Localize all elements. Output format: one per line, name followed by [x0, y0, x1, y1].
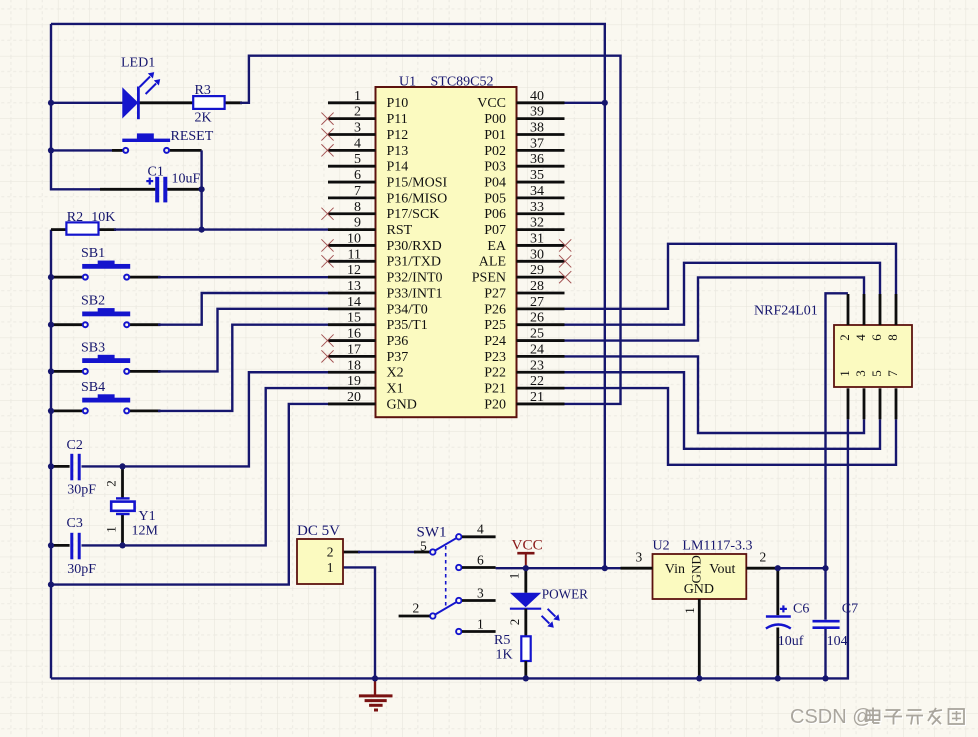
svg-text:P02: P02: [484, 144, 506, 159]
svg-text:EA: EA: [487, 239, 507, 254]
wire U1 pin20 GND to left rail: [51, 404, 328, 585]
wire R3 to P20 over the top of U1: [225, 101, 242, 104]
svg-text:11: 11: [348, 247, 361, 262]
svg-text:3: 3: [477, 586, 484, 601]
junction: [602, 100, 608, 106]
crystal Y1 12M: [111, 466, 134, 545]
svg-text:P04: P04: [484, 175, 506, 190]
svg-text:2: 2: [103, 480, 118, 487]
junction: [119, 542, 125, 548]
U2 pin 3 Vin line: [621, 567, 653, 570]
svg-text:P13: P13: [387, 144, 409, 159]
U2 pin 2 Vout line: [746, 567, 778, 570]
junction: [775, 675, 781, 681]
svg-text:Vin: Vin: [665, 562, 685, 577]
IC U1 STC89C52 body: [376, 87, 517, 417]
svg-text:15: 15: [347, 311, 361, 326]
capacitor C6 (10uf polarized): [766, 568, 791, 678]
U1 pin 27 (P26): [484, 295, 564, 317]
U1 pin 19 (X1): [328, 374, 404, 396]
junction: [48, 582, 54, 588]
wire U1 P21 to NRF pin7: [565, 388, 897, 465]
svg-text:U1: U1: [399, 75, 416, 90]
svg-text:LED1: LED1: [121, 56, 155, 71]
wire R3 jog up and over U1 to P20: [240, 56, 621, 404]
SW1 pin 6 line: [462, 566, 496, 569]
junction: [119, 463, 125, 469]
U1 pin 1 (P10): [328, 89, 408, 111]
svg-text:38: 38: [530, 121, 544, 136]
svg-text:C7: C7: [842, 602, 858, 617]
svg-text:1: 1: [354, 89, 361, 104]
svg-text:6: 6: [869, 334, 884, 341]
svg-text:P25: P25: [484, 318, 506, 333]
wire RESET right contact down through C1 to RST row: [170, 149, 202, 152]
U1 pin 4 (P13): [321, 136, 408, 158]
svg-text:30pF: 30pF: [67, 562, 96, 577]
svg-text:LM1117-3.3: LM1117-3.3: [682, 539, 752, 554]
svg-text:P17/SCK: P17/SCK: [387, 207, 440, 222]
wire SB4 to U1 pin15 P35/T1: [158, 325, 328, 411]
svg-text:2: 2: [760, 550, 767, 565]
svg-text:26: 26: [530, 311, 544, 326]
wire C1 right plate to vertical: [167, 188, 201, 191]
wire bottom ground rail: [51, 419, 848, 678]
svg-text:35: 35: [530, 168, 544, 183]
junction: [48, 274, 54, 280]
wire C3 row from rail: [51, 544, 70, 547]
wire crystal bottom node to U1 pin19 X1: [123, 388, 329, 545]
svg-text:GND: GND: [387, 397, 417, 412]
junction: [48, 463, 54, 469]
U1 pin 5 (P14): [328, 152, 408, 174]
svg-text:NRF24L01: NRF24L01: [754, 304, 818, 319]
svg-text:P12: P12: [387, 128, 409, 143]
svg-text:C1: C1: [148, 165, 164, 180]
resistor R3: [193, 96, 224, 109]
svg-text:1: 1: [837, 370, 852, 377]
svg-text:5: 5: [869, 370, 884, 377]
junction: [199, 227, 205, 233]
svg-text:X1: X1: [387, 382, 404, 397]
junction: [48, 408, 54, 414]
svg-text:10uF: 10uF: [172, 172, 201, 187]
wire SB1 left stub: [51, 276, 83, 279]
svg-text:P35/T1: P35/T1: [387, 318, 428, 333]
wire U1 P25 to NRF pin6: [565, 263, 881, 325]
svg-text:104: 104: [827, 634, 848, 649]
connector NRF24L01 body: [834, 325, 912, 387]
junction: [48, 147, 54, 153]
svg-text:10: 10: [347, 231, 361, 246]
svg-text:1K: 1K: [496, 647, 513, 662]
wire SB4 left stub: [51, 409, 83, 412]
svg-text:2: 2: [327, 545, 334, 560]
U1 pin 7 (P16/MISO): [328, 184, 447, 206]
svg-text:R5: R5: [494, 633, 510, 648]
U1 pin 35 (P04): [484, 168, 564, 190]
svg-text:5: 5: [354, 152, 361, 167]
svg-text:32: 32: [530, 216, 544, 231]
wire VCC top loop from left rail to U1 pin40 column: [51, 24, 605, 568]
svg-text:P36: P36: [387, 334, 409, 349]
svg-text:2: 2: [354, 105, 361, 120]
svg-text:P06: P06: [484, 207, 506, 222]
svg-text:1: 1: [682, 607, 697, 614]
U1 pin 37 (P02): [484, 136, 564, 158]
wire U1 pin40 VCC to vertical rail: [565, 102, 605, 104]
svg-text:DC 5V: DC 5V: [297, 523, 340, 539]
NRF24L01 pin 1 line: [847, 388, 850, 419]
wire C2 to crystal node: [82, 465, 123, 467]
svg-text:4: 4: [477, 522, 484, 537]
U1 pin 33 (P06): [484, 200, 564, 222]
wire LED1 cathode to R3: [138, 101, 193, 104]
wire SB3 right stub: [130, 370, 161, 373]
svg-text:12M: 12M: [132, 523, 159, 538]
svg-text:R3: R3: [195, 83, 211, 98]
svg-text:P30/RXD: P30/RXD: [387, 239, 442, 254]
svg-text:RST: RST: [387, 223, 413, 238]
wire DC5V pin2 to SW1 pin5: [343, 551, 360, 554]
svg-text:C6: C6: [793, 602, 809, 617]
svg-text:28: 28: [530, 279, 544, 294]
wire crystal top node to U1 pin18 X2: [123, 372, 329, 466]
power symbol VCC: [517, 553, 534, 568]
U1 pin 14 (P34/T0): [328, 295, 428, 317]
svg-text:3: 3: [853, 370, 868, 377]
NRF24L01 pin 7 line: [895, 388, 898, 419]
svg-text:4: 4: [354, 136, 361, 151]
svg-text:STC89C52: STC89C52: [431, 75, 494, 90]
svg-text:29: 29: [530, 263, 544, 278]
wire U1 P24 to NRF pin4: [565, 277, 865, 340]
U1 pin 20 (GND): [328, 390, 417, 412]
U2 pin 1 GND line: [698, 599, 701, 678]
junction: [523, 675, 529, 681]
capacitor C1 (10uF polarized): [146, 177, 167, 203]
pushbutton SB1: [82, 261, 130, 280]
wire RESET vertical to RST row: [200, 150, 202, 229]
wire SB2 to U1 pin13 P33/INT1: [158, 293, 328, 325]
NRF24L01 pin 4 line: [863, 294, 866, 325]
wire RESET row from rail: [51, 149, 112, 151]
junction: [48, 322, 54, 328]
wire U2 Vout to C6/C7 node: [778, 567, 826, 569]
pushbutton RESET: [122, 133, 170, 153]
svg-text:7: 7: [354, 184, 361, 199]
junction: [199, 186, 205, 192]
switch SW1: [430, 534, 461, 634]
U1 pin 25 (P24): [484, 327, 564, 349]
svg-text:P07: P07: [484, 223, 506, 238]
wire R2 left pin to rail: [51, 228, 66, 231]
wire C7 branch upper: [824, 568, 826, 620]
SW1 pin 4 line: [462, 535, 496, 538]
pushbutton SB3: [82, 355, 130, 374]
U1 pin 13 (P33/INT1): [328, 279, 443, 301]
svg-text:12: 12: [347, 263, 361, 278]
wire left rail upper segment to C1 row: [51, 24, 100, 189]
svg-text:U2: U2: [653, 539, 670, 554]
LED LED1: [122, 72, 160, 119]
wire RST row R2 to U1 pin9: [99, 228, 117, 231]
svg-text:P34/T0: P34/T0: [387, 302, 428, 317]
wire C7 branch lower: [824, 629, 826, 678]
U1 pin 29 (PSEN): [472, 263, 572, 285]
wire C1 left lead: [100, 188, 155, 191]
wire SB2 right stub: [130, 323, 161, 326]
svg-text:40: 40: [530, 89, 544, 104]
U1 pin 10 (P30/RXD): [321, 231, 441, 253]
capacitor C3 (30pF): [70, 533, 80, 560]
R5 lower lead: [524, 661, 527, 678]
svg-text:GND: GND: [688, 555, 703, 583]
resistor R5 1K: [521, 636, 530, 661]
svg-text:1: 1: [327, 560, 334, 575]
U1 pin 31 (EA): [487, 231, 571, 253]
svg-text:C2: C2: [67, 438, 83, 453]
svg-text:P31/TXD: P31/TXD: [387, 255, 441, 270]
svg-text:20: 20: [347, 390, 361, 405]
U1 pin 15 (P35/T1): [328, 311, 428, 333]
U1 pin 16 (P36): [321, 327, 408, 349]
svg-text:8: 8: [885, 334, 900, 341]
svg-text:3: 3: [354, 121, 361, 136]
wire SB3 left stub: [51, 370, 83, 373]
U1 pin 38 (P01): [484, 121, 564, 143]
svg-text:P00: P00: [484, 112, 506, 127]
wire SB1 right stub: [130, 276, 161, 279]
U1 pin 26 (P25): [484, 311, 564, 333]
svg-text:21: 21: [530, 390, 544, 405]
svg-text:30: 30: [530, 247, 544, 262]
wire U1 P22 to NRF pin5: [565, 372, 881, 449]
junction: [696, 675, 702, 681]
U1 pin 36 (P03): [484, 152, 564, 174]
svg-text:23: 23: [530, 358, 544, 373]
svg-text:14: 14: [347, 295, 361, 310]
svg-text:SB3: SB3: [81, 340, 105, 355]
NRF24L01 pin 6 line: [879, 294, 882, 325]
U1 pin 32 (P07): [484, 216, 564, 238]
svg-text:13: 13: [347, 279, 361, 294]
resistor R2: [66, 222, 98, 234]
junction: [775, 565, 781, 571]
junction: [822, 565, 828, 571]
U1 pin 22 (P21): [484, 374, 564, 396]
svg-text:C3: C3: [67, 516, 83, 531]
svg-text:P21: P21: [484, 382, 506, 397]
junction: [48, 368, 54, 374]
svg-text:8: 8: [354, 200, 361, 215]
svg-text:30pF: 30pF: [67, 483, 96, 498]
svg-text:25: 25: [530, 327, 544, 342]
svg-text:P05: P05: [484, 191, 506, 206]
U1 pin 39 (P00): [484, 105, 564, 127]
svg-text:18: 18: [347, 358, 361, 373]
svg-text:33: 33: [530, 200, 544, 215]
NRF24L01 pin 8 line: [895, 294, 898, 325]
junction: [822, 675, 828, 681]
svg-text:Vout: Vout: [709, 562, 735, 577]
svg-text:24: 24: [530, 342, 544, 357]
U1 pin 2 (P11): [321, 105, 407, 127]
wire LED1 anode from rail: [51, 102, 123, 104]
svg-text:ALE: ALE: [479, 255, 506, 270]
U1 pin 40 (VCC): [477, 89, 564, 111]
wire NRF pin2 to 3.3V node: [826, 293, 848, 568]
svg-text:6: 6: [477, 553, 484, 568]
capacitor C7 (104): [813, 621, 840, 628]
svg-text:31: 31: [530, 231, 544, 246]
svg-text:9: 9: [354, 216, 361, 231]
ground symbol: [359, 678, 393, 710]
svg-text:P24: P24: [484, 334, 506, 349]
U1 pin 30 (ALE): [479, 247, 572, 269]
svg-text:POWER: POWER: [542, 586, 588, 601]
svg-text:27: 27: [530, 295, 544, 310]
svg-text:PSEN: PSEN: [472, 271, 506, 286]
svg-text:P11: P11: [387, 112, 408, 127]
svg-text:10K: 10K: [91, 210, 115, 225]
svg-text:P01: P01: [484, 128, 506, 143]
pushbutton SB2: [82, 308, 130, 327]
svg-text:19: 19: [347, 374, 361, 389]
wire C3 to crystal bottom node: [82, 544, 123, 546]
svg-text:X2: X2: [387, 366, 404, 381]
U1 pin 12 (P32/INT0): [328, 263, 443, 285]
svg-text:SB2: SB2: [81, 294, 105, 309]
pushbutton SB4: [82, 394, 130, 413]
svg-text:2: 2: [413, 601, 420, 616]
svg-text:16: 16: [347, 327, 361, 342]
wire U1 P23 to NRF pin3: [565, 356, 865, 433]
svg-text:1: 1: [506, 573, 521, 580]
junction: [48, 542, 54, 548]
svg-text:SB4: SB4: [81, 380, 105, 395]
wire left rail lower segment (GND rail): [50, 230, 52, 679]
U1 pin 28 (P27): [484, 279, 564, 301]
connector DC 5V: [297, 539, 343, 584]
capacitor C2 (30pF): [70, 454, 80, 481]
svg-text:R2: R2: [67, 210, 83, 225]
svg-text:P26: P26: [484, 302, 506, 317]
svg-text:1: 1: [103, 526, 118, 533]
svg-text:2: 2: [507, 619, 522, 626]
U1 pin 11 (P31/TXD): [321, 247, 441, 269]
svg-text:4: 4: [853, 334, 868, 341]
wire SB3 to U1 pin14 P34/T0: [158, 309, 328, 372]
svg-text:P16/MISO: P16/MISO: [387, 191, 448, 206]
SW1 pin 1 line: [462, 630, 496, 633]
wire SB1 to U1 pin12 P32/INT0: [158, 276, 328, 278]
U1 pin 8 (P17/SCK): [321, 200, 439, 222]
svg-text:5: 5: [420, 539, 427, 554]
svg-text:P14: P14: [387, 160, 409, 175]
U1 pin 17 (P37): [321, 342, 408, 364]
wire C2 row from rail: [51, 465, 70, 468]
NRF24L01 pin 5 line: [879, 388, 882, 419]
svg-text:2: 2: [837, 334, 852, 341]
U1 pin 18 (X2): [328, 358, 404, 380]
svg-text:3: 3: [636, 550, 643, 565]
SW1 pin 2 line: [399, 615, 430, 618]
NRF24L01 pin 2 line: [847, 294, 850, 325]
svg-text:17: 17: [347, 342, 361, 357]
wire U1 P26 to NRF pin8: [565, 244, 897, 309]
svg-text:RESET: RESET: [171, 129, 214, 144]
wire SB2 left stub: [51, 323, 83, 326]
svg-text:P15/MOSI: P15/MOSI: [387, 175, 448, 190]
svg-text:SB1: SB1: [81, 246, 105, 261]
svg-text:7: 7: [885, 370, 900, 377]
svg-text:P23: P23: [484, 350, 506, 365]
svg-text:VCC: VCC: [477, 96, 506, 111]
U1 pin 3 (P12): [321, 121, 408, 143]
svg-text:34: 34: [530, 184, 544, 199]
U1 pin 9 (RST): [328, 216, 413, 238]
wire RST row to U1 pin9: [114, 228, 328, 230]
junction: [523, 565, 529, 571]
U1 pin 24 (P23): [484, 342, 564, 364]
LED POWER: [510, 568, 560, 636]
wire DC5V pin1 down to ground rail: [343, 567, 375, 678]
svg-text:2K: 2K: [195, 111, 212, 126]
svg-text:39: 39: [530, 105, 544, 120]
wire SB4 right stub: [130, 409, 161, 412]
svg-text:CSDN @: CSDN @: [790, 706, 873, 728]
regulator U2 LM1117-3.3 body: [653, 554, 747, 599]
svg-text:P20: P20: [484, 397, 506, 412]
U1 pin 23 (P22): [484, 358, 564, 380]
svg-text:P22: P22: [484, 366, 506, 381]
svg-text:36: 36: [530, 152, 544, 167]
junction: [48, 100, 54, 106]
wire VCC rail SW1 pin6 to U2 Vin: [496, 567, 621, 569]
svg-text:GND: GND: [684, 582, 714, 597]
svg-text:22: 22: [530, 374, 544, 389]
svg-text:6: 6: [354, 168, 361, 183]
svg-text:P27: P27: [484, 286, 506, 301]
svg-text:37: 37: [530, 136, 544, 151]
junction: [372, 675, 378, 681]
U1 pin 6 (P15/MOSI): [328, 168, 448, 190]
svg-text:P37: P37: [387, 350, 409, 365]
svg-text:1: 1: [477, 617, 484, 632]
svg-text:VCC: VCC: [512, 536, 543, 553]
svg-text:P33/INT1: P33/INT1: [387, 286, 443, 301]
svg-text:P10: P10: [387, 96, 409, 111]
NRF24L01 pin 3 line: [863, 388, 866, 419]
svg-text:Y1: Y1: [139, 509, 156, 524]
SW1 pin 3 line: [462, 599, 496, 602]
svg-text:P32/INT0: P32/INT0: [387, 271, 443, 286]
U1 pin 34 (P05): [484, 184, 564, 206]
junction: [602, 565, 608, 571]
U1 pin 21 (P20): [484, 390, 564, 412]
svg-text:10uf: 10uf: [778, 634, 804, 649]
svg-text:P03: P03: [484, 160, 506, 175]
